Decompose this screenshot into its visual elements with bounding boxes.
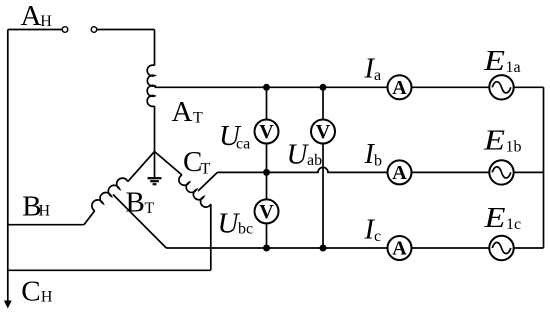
svg-text:1a: 1a — [506, 59, 521, 76]
svg-text:V: V — [259, 121, 274, 143]
wire C_T bottom vertical — [210, 204, 212, 270]
wire switch to A_T winding — [97, 29, 155, 31]
svg-text:E: E — [483, 202, 506, 234]
source E_1c — [489, 236, 513, 260]
inductor C_T — [179, 175, 211, 207]
svg-text:A: A — [392, 238, 407, 260]
ammeter I_b — [388, 160, 412, 184]
node row c / U_bc branch — [263, 245, 270, 252]
wire left slant apex to B_T — [128, 152, 155, 182]
node row a / U_ab branch — [320, 84, 327, 91]
svg-text:ab: ab — [307, 152, 322, 169]
svg-text:1c: 1c — [506, 216, 521, 233]
source E_1b — [489, 160, 513, 184]
node row b / U_ca-U_bc branch — [263, 169, 270, 176]
node row a / U_ca branch — [263, 84, 270, 91]
svg-text:ca: ca — [236, 135, 250, 152]
svg-text:T: T — [193, 110, 203, 127]
wire A_T winding top lead — [154, 30, 156, 66]
arrow C_H supply — [4, 301, 12, 309]
wire left vertical bus — [7, 30, 9, 302]
svg-text:C: C — [21, 275, 40, 307]
ammeter I_a — [388, 75, 412, 99]
wire voltmeter branch U_ca / U_bc — [266, 87, 268, 248]
source E_1a — [489, 75, 513, 99]
wire B_T tap diagonal to row c — [113, 195, 166, 249]
ammeter I_c — [388, 236, 412, 260]
svg-text:A: A — [172, 96, 193, 128]
switch contact left — [62, 27, 68, 33]
wire right vertical — [543, 87, 545, 248]
wire A_H top horizontal — [8, 29, 62, 31]
ground stub — [154, 152, 156, 178]
wire B_H horizontal — [8, 224, 84, 226]
svg-text:A: A — [392, 77, 407, 99]
svg-text:a: a — [374, 67, 381, 84]
svg-text:V: V — [316, 121, 331, 143]
voltmeter U_bc — [255, 199, 279, 223]
svg-text:bc: bc — [238, 221, 253, 238]
svg-text:1b: 1b — [506, 139, 522, 156]
svg-text:T: T — [145, 200, 155, 217]
svg-text:H: H — [39, 202, 51, 219]
svg-text:H: H — [40, 13, 52, 30]
svg-text:A: A — [392, 162, 407, 184]
wire row a (phase a line) — [155, 86, 544, 88]
wire row b with hop over U_ab line — [217, 167, 543, 172]
svg-text:b: b — [374, 152, 382, 169]
svg-text:H: H — [41, 289, 53, 306]
wire A_T winding bottom lead — [154, 106, 156, 152]
inductor A_T — [147, 65, 154, 106]
svg-text:E: E — [483, 125, 506, 157]
switch contact right — [91, 27, 97, 33]
wire bottom horizontal to left bus — [8, 269, 211, 271]
voltmeter U_ab — [311, 120, 335, 144]
inductor B_T — [92, 178, 128, 211]
svg-text:B: B — [126, 186, 145, 218]
wire voltmeter branch U_ab — [322, 87, 324, 248]
wire B_T lower lead to B_H corner — [84, 211, 95, 225]
wire row c (phase c line) — [166, 247, 543, 249]
svg-text:c: c — [374, 228, 381, 245]
wire right slant apex to C_T — [155, 152, 183, 176]
svg-text:C: C — [183, 146, 202, 178]
node row c / U_ab branch — [320, 245, 327, 252]
wire C_T tap diagonal to row b — [198, 172, 217, 191]
svg-text:A: A — [21, 0, 42, 32]
ground — [148, 178, 162, 184]
svg-text:V: V — [259, 201, 274, 223]
svg-text:E: E — [483, 45, 506, 77]
svg-text:T: T — [201, 160, 211, 177]
voltmeter U_ca — [255, 120, 279, 144]
